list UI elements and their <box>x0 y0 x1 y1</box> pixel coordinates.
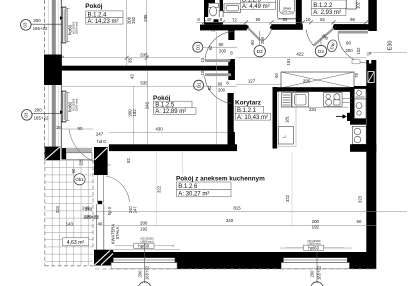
dim line y211.5 <box>96 211 407 213</box>
wall riser to corridor <box>228 132 235 146</box>
WC right wall <box>220 0 223 11</box>
door D1 bottom hinge dots <box>231 71 234 74</box>
svg-text:10: 10 <box>200 70 205 75</box>
svg-text:80: 80 <box>219 42 224 47</box>
dim line y227.5 <box>104 224 376 226</box>
cabinet in B.1.2.2 <box>346 0 356 9</box>
fridge box L <box>279 127 294 145</box>
kitchen top wall <box>273 87 355 92</box>
door D1 bottom leaf <box>205 73 231 76</box>
dim lines vertical in B.1.2.5 <box>133 86 135 144</box>
door D1 circle bottom <box>194 80 204 90</box>
window B2 frame <box>281 258 349 269</box>
svg-text:60: 60 <box>357 219 362 224</box>
svg-text:80: 80 <box>250 40 255 45</box>
sink <box>292 93 309 107</box>
svg-text:165+22: 165+22 <box>144 265 149 280</box>
hatch diagonal on wall blocks <box>45 147 60 160</box>
svg-text:10: 10 <box>200 57 205 62</box>
svg-text:D2: D2 <box>257 49 263 55</box>
dim line y132.5 <box>109 132 228 134</box>
top right wall chunk <box>354 86 368 92</box>
svg-text:hp/60: hp/60 <box>308 245 319 250</box>
wall insulation strip <box>45 0 62 148</box>
svg-text:200: 200 <box>33 18 41 23</box>
dim line y84.5 <box>236 84 281 86</box>
door D2 B122 leaf <box>314 29 334 46</box>
svg-text:46: 46 <box>98 221 103 226</box>
bathroom right wall <box>296 0 302 26</box>
svg-text:200: 200 <box>34 108 42 113</box>
stove <box>324 93 343 107</box>
bottom wall black band <box>107 252 367 258</box>
door D2 leader <box>259 31 261 45</box>
svg-text:15: 15 <box>56 125 61 130</box>
terrace door leaf <box>98 175 104 203</box>
svg-text:340: 340 <box>226 218 234 223</box>
svg-text:322: 322 <box>285 194 290 202</box>
B.1.2.2 bottom wall <box>334 24 367 30</box>
svg-text:200: 200 <box>260 36 265 44</box>
dim line top <box>196 21 368 23</box>
svg-text:92: 92 <box>320 17 325 22</box>
dim line vertical x146.7 <box>146 0 148 66</box>
svg-text:Korytarz: Korytarz <box>235 100 261 107</box>
door D1 circle top <box>193 42 203 52</box>
svg-text:192: 192 <box>312 224 320 229</box>
svg-text:90: 90 <box>346 40 351 45</box>
svg-text:72: 72 <box>232 18 237 23</box>
terrace dashed border <box>45 148 95 266</box>
svg-text:200: 200 <box>312 219 320 224</box>
counter front edge <box>281 106 348 108</box>
door D2 circle <box>254 46 265 57</box>
room label Korytarz <box>235 100 271 121</box>
door D2 bathroom arc <box>261 30 271 42</box>
svg-text:42: 42 <box>129 74 134 79</box>
vertical lines in B.1.2.6 <box>155 152 157 225</box>
svg-text:STAŁA: STAŁA <box>115 226 120 239</box>
svg-text:200: 200 <box>219 49 227 54</box>
svg-text:430: 430 <box>155 127 163 132</box>
svg-text:295: 295 <box>143 14 148 22</box>
bathtub <box>277 0 296 19</box>
dim line D1 vertical <box>215 31 217 144</box>
svg-text:295: 295 <box>303 78 311 83</box>
svg-text:192: 192 <box>132 109 137 117</box>
dim line above windows <box>108 249 180 251</box>
svg-text:240: 240 <box>85 207 93 212</box>
svg-text:D2: D2 <box>318 49 324 55</box>
wall black segment at balcony door <box>44 147 60 161</box>
door D2 B122: hinge dot <box>333 25 337 29</box>
svg-text:03: 03 <box>23 22 28 27</box>
terrace door hinge <box>98 201 102 204</box>
svg-text:A: 30,27 m²: A: 30,27 m² <box>178 191 209 197</box>
right exterior wall lower <box>366 60 376 253</box>
window B1 label <box>115 237 174 249</box>
DW circle <box>326 39 339 53</box>
dim line y57.5 left <box>62 57 200 59</box>
svg-text:4,63 m²: 4,63 m² <box>67 240 85 246</box>
svg-text:60: 60 <box>274 73 279 78</box>
appliance boxes right column <box>352 89 366 145</box>
corridor left wall <box>228 93 234 146</box>
svg-text:B.1.2.2: B.1.2.2 <box>313 3 333 9</box>
svg-text:192: 192 <box>140 226 148 231</box>
WC bottom wall <box>204 19 223 24</box>
svg-text:(1200 mm): (1200 mm) <box>74 99 78 112</box>
wall stub below bathroom <box>228 30 234 40</box>
wall H1 <box>61 66 235 71</box>
svg-text:A: 12,89 m²: A: 12,89 m² <box>155 109 186 115</box>
hall top wall band <box>200 25 247 31</box>
door D2 bathroom: hinge dot <box>245 25 249 29</box>
dim line y57.5 right <box>236 57 366 59</box>
washbasin <box>224 4 241 13</box>
svg-text:A: 14,23 m²: A: 14,23 m² <box>88 19 119 25</box>
svg-text:hp/60: hp/60 <box>138 243 149 248</box>
window B1 frame <box>111 258 177 269</box>
arrow symbol <box>336 114 347 119</box>
entrance top wall <box>335 24 369 30</box>
svg-text:165+22: 165+22 <box>33 26 48 31</box>
window B2 label <box>286 239 344 251</box>
svg-text:79: 79 <box>354 73 359 78</box>
bottom-left corner block <box>94 250 113 266</box>
dim line y86 <box>62 85 200 87</box>
svg-text:181: 181 <box>285 115 290 123</box>
door D2 leader <box>320 38 322 45</box>
svg-text:35: 35 <box>127 58 132 63</box>
door D1 top arc <box>205 31 234 60</box>
WC top cap <box>204 0 215 3</box>
svg-text:90: 90 <box>78 126 83 131</box>
WC door leaf <box>219 11 223 21</box>
svg-text:200: 200 <box>140 221 148 226</box>
svg-text:1240 mm: 1240 mm <box>282 9 293 13</box>
door D2 circle <box>315 45 326 56</box>
door D1 top leaf <box>205 59 231 62</box>
terrace door arc <box>106 176 130 202</box>
svg-text:143: 143 <box>66 222 74 227</box>
svg-text:165+22: 165+22 <box>317 265 322 280</box>
dim line D1 top <box>202 46 237 48</box>
svg-text:323: 323 <box>358 195 363 203</box>
svg-text:A: 4,49 m²: A: 4,49 m² <box>242 4 270 10</box>
room label B.1.2.3 <box>240 0 275 10</box>
svg-text:225+22: 225+22 <box>84 214 99 219</box>
svg-text:535: 535 <box>140 53 148 58</box>
svg-text:L: L <box>282 135 287 138</box>
dashed sill line <box>95 268 376 270</box>
svg-text:200: 200 <box>345 48 353 53</box>
svg-text:90: 90 <box>71 168 76 173</box>
svg-text:03: 03 <box>24 112 29 117</box>
svg-text:10: 10 <box>306 17 311 22</box>
WC fixture <box>209 3 219 16</box>
room label B.1.2.6 <box>176 175 265 197</box>
right exterior wall top <box>368 0 377 31</box>
room label B.1.2.4 <box>85 3 123 25</box>
entrance threshold box <box>352 60 360 64</box>
balcony door arc <box>69 129 111 165</box>
svg-text:200: 200 <box>310 270 315 278</box>
dim line at y52 <box>370 51 407 53</box>
svg-text:92: 92 <box>208 45 213 50</box>
door D1 top hinge dots <box>230 29 234 33</box>
door D2 B122 arc <box>306 30 313 46</box>
window W1 in left wall <box>60 7 78 43</box>
entrance door leaf <box>338 31 368 34</box>
svg-text:200: 200 <box>218 88 226 93</box>
dim line y128.8 <box>62 128 93 130</box>
axis line window B1 <box>137 243 151 286</box>
kitchen right inner wall strip <box>350 87 354 122</box>
entrance door arc <box>338 33 368 63</box>
terrace area label <box>63 238 89 246</box>
svg-text:Ob1: Ob1 <box>75 177 84 182</box>
kitchen bottom right wall piece <box>350 144 376 152</box>
dim line D1 bottom <box>202 85 237 87</box>
svg-text:A: 10,43 m²: A: 10,43 m² <box>237 115 268 121</box>
balcony door threshold <box>62 148 93 160</box>
bathroom bottom wall right segment <box>271 24 303 30</box>
svg-text:A: 2,93 m²: A: 2,93 m² <box>313 10 341 16</box>
svg-text:191: 191 <box>286 58 291 66</box>
svg-text:hp 0: hp 0 <box>107 206 112 215</box>
svg-text:102: 102 <box>356 1 361 9</box>
wardrobe crossed box <box>274 72 359 88</box>
svg-text:247: 247 <box>96 132 104 137</box>
wall black segment upper <box>44 55 62 86</box>
window W2 in left wall <box>60 91 78 122</box>
door D2 bathroom hinge dot right <box>270 26 273 29</box>
svg-text:98: 98 <box>350 17 355 22</box>
Ob1 circle <box>74 174 85 185</box>
dim line vertical x126.7 <box>126 0 128 66</box>
svg-text:(1200 mm): (1200 mm) <box>74 22 78 35</box>
dim 85 bathtub tick <box>277 19 296 21</box>
svg-text:165+22: 165+22 <box>34 116 49 121</box>
svg-text:90: 90 <box>256 17 261 22</box>
svg-text:E30: E30 <box>388 41 394 51</box>
washing machine <box>282 93 292 107</box>
svg-text:B.1.2.6: B.1.2.6 <box>178 184 198 190</box>
svg-text:192: 192 <box>131 16 136 24</box>
room label B.1.2.5 <box>153 95 196 115</box>
corridor right wall / kitchen left wall <box>273 87 278 149</box>
svg-text:82: 82 <box>126 158 131 163</box>
svg-text:hd 0: hd 0 <box>97 139 106 144</box>
wall below door (double line) <box>97 204 104 250</box>
terrace tile grid <box>45 160 93 266</box>
wall block left of big room <box>94 147 108 175</box>
wall bottom of B.1.2.5 <box>109 144 237 151</box>
WC left wall <box>204 0 208 25</box>
svg-text:102: 102 <box>356 47 361 55</box>
svg-text:40: 40 <box>207 17 212 22</box>
kitchen cabinet outline left <box>279 92 297 147</box>
black pier right of arrow <box>347 113 352 121</box>
svg-text:127: 127 <box>248 78 256 83</box>
svg-text:200: 200 <box>137 270 142 278</box>
door frame notch <box>369 59 371 64</box>
svg-text:D1: D1 <box>196 44 201 50</box>
shaft hatched box in wall <box>368 72 374 83</box>
svg-text:234: 234 <box>309 107 317 112</box>
svg-text:Pokój z aneksem kuchennym: Pokój z aneksem kuchennym <box>176 175 265 182</box>
svg-text:80: 80 <box>218 81 223 86</box>
svg-text:815: 815 <box>233 206 241 211</box>
svg-text:422: 422 <box>296 51 304 56</box>
svg-text:247: 247 <box>133 206 138 214</box>
svg-text:Pokój: Pokój <box>85 3 103 10</box>
svg-text:322: 322 <box>157 185 162 193</box>
svg-text:242: 242 <box>145 101 150 109</box>
svg-text:92: 92 <box>207 85 212 90</box>
axis line window B2 <box>310 252 323 286</box>
wall stub at H1 right end <box>228 59 235 80</box>
axis circle 03 upper <box>21 18 63 31</box>
svg-text:324: 324 <box>55 205 60 213</box>
svg-text:535: 535 <box>140 81 148 86</box>
door D1 bottom arc <box>205 76 232 104</box>
dim ticks top <box>202 20 368 24</box>
door D2 bathroom leaf <box>248 28 261 41</box>
room label B.1.2.2 <box>311 0 352 16</box>
axis circle 03 lower <box>22 108 63 121</box>
svg-text:D1: D1 <box>196 82 201 88</box>
